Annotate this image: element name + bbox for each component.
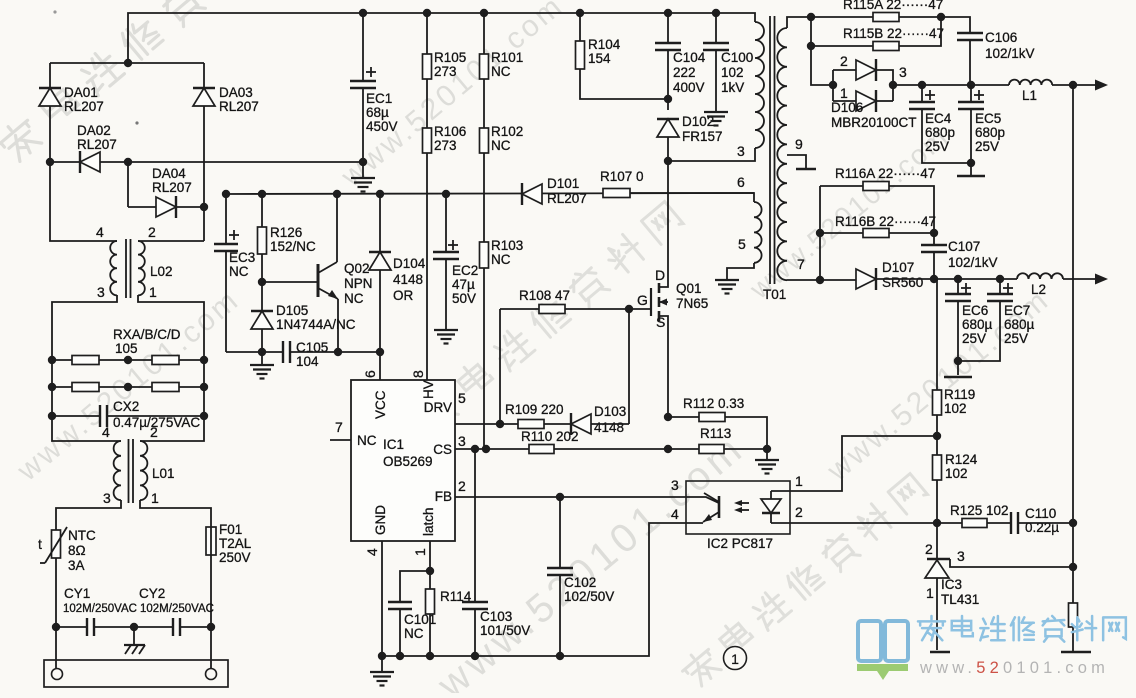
resistor R101 [483, 13, 485, 54]
svg-text:C102: C102 [564, 575, 596, 590]
node row2 M [124, 383, 132, 391]
wire C107 bottom lead [933, 252, 935, 277]
wire row1 right [179, 359, 204, 361]
svg-text:1: 1 [840, 85, 848, 101]
svg-text:EC1: EC1 [366, 91, 392, 106]
resistor R119 [934, 279, 937, 390]
wire +310V top rail [128, 13, 755, 63]
node rail EC1 [359, 9, 367, 17]
svg-text:8: 8 [410, 370, 426, 378]
svg-text:101/50V: 101/50V [480, 623, 530, 638]
node snubber1 right node [937, 13, 945, 21]
node rail R104 [576, 9, 584, 17]
svg-text:1N4744A/NC: 1N4744A/NC [276, 317, 356, 332]
svg-text:DRV: DRV [424, 400, 452, 415]
wire AC1 to EC1-minus [50, 161, 363, 163]
logo char 1 [952, 616, 973, 636]
logo char 2 [980, 616, 1004, 640]
resistor bottom right (unlabelled) [1069, 603, 1078, 627]
svg-text:R126: R126 [270, 225, 302, 240]
wire C102 bottom lead [559, 575, 561, 656]
svg-text:102M/250VAC: 102M/250VAC [63, 603, 137, 615]
opto pin2 wire [790, 522, 937, 524]
svg-text:7: 7 [797, 256, 805, 272]
svg-text:7N65: 7N65 [676, 296, 708, 311]
node CY mid node [130, 623, 138, 631]
resistor R105 [426, 13, 428, 54]
svg-text:EC5: EC5 [975, 111, 1001, 126]
svg-text:SR560: SR560 [882, 275, 923, 290]
svg-text:R108 47: R108 47 [519, 288, 570, 303]
svg-text:GND: GND [373, 505, 388, 535]
diode DA04 [156, 196, 176, 218]
svg-text:3: 3 [737, 143, 745, 159]
svg-text:R115B 22······47: R115B 22······47 [843, 26, 944, 41]
svg-text:NC: NC [491, 252, 511, 267]
wire R115B right lead [899, 17, 941, 46]
svg-text:G: G [637, 292, 648, 308]
logo char 5 [1072, 616, 1096, 640]
node bridge + node [124, 59, 132, 67]
svg-text:OB5269: OB5269 [383, 454, 433, 469]
svg-text:C100: C100 [721, 50, 753, 65]
svg-text:1: 1 [926, 585, 934, 601]
svg-text:4: 4 [102, 424, 110, 440]
node VCC pin node [376, 348, 384, 356]
capacitor C110 [1011, 512, 1018, 534]
node pin7 node [816, 276, 824, 284]
node EC1 minus / gnd [359, 158, 367, 166]
wire R112 right lead [725, 417, 767, 447]
wire R105-R106 link [426, 79, 428, 128]
ground below EC1 [351, 162, 375, 192]
svg-text:4: 4 [671, 506, 679, 522]
node DA02-DA04 link [124, 158, 132, 166]
svg-text:L2: L2 [1031, 282, 1046, 297]
node snubber node [664, 95, 672, 103]
wire L02 pin1 rail [138, 295, 204, 441]
resistor RXC [52, 386, 72, 388]
svg-text:S: S [656, 314, 665, 330]
node CX2 R [200, 412, 208, 420]
svg-text:104: 104 [296, 354, 319, 369]
wire EC6 bottom lead [957, 301, 959, 361]
wire L01 pin3 to NTC [56, 500, 121, 530]
wire CY mid wire [94, 626, 173, 628]
wire C110 right lead [1018, 522, 1073, 524]
ground at aux pin5 [715, 280, 739, 294]
svg-text:D: D [655, 267, 665, 283]
capacitor EC7 [999, 279, 1001, 294]
svg-text:t: t [38, 536, 42, 552]
resistor R110 [529, 445, 554, 454]
shunt regulator IC3 TL431 [936, 523, 938, 559]
wire Q01 source lead [659, 316, 668, 417]
svg-text:R115A 22······47: R115A 22······47 [843, 0, 943, 12]
wire row1 mid [99, 359, 152, 361]
wire VCC raw bus [226, 193, 754, 194]
capacitor EC6 [957, 279, 959, 294]
svg-text:OR: OR [393, 288, 414, 303]
MOSFET Q01 7N65 [650, 288, 652, 316]
svg-text:IC3: IC3 [941, 577, 962, 592]
svg-text:NTC: NTC [68, 528, 96, 543]
wire C101 bottom lead [399, 609, 401, 656]
svg-text:NC: NC [229, 264, 249, 279]
capacitor EC5 [970, 85, 972, 102]
svg-text:R116A 22······47: R116A 22······47 [835, 166, 935, 181]
wire R102-R103 link [483, 153, 485, 242]
node row1 M [124, 356, 132, 364]
pin 9 tap stub [787, 155, 806, 168]
capacitor C104 [667, 13, 669, 43]
capacitor C102 [559, 497, 561, 568]
node AC2 node [200, 203, 208, 211]
capacitor EC4 [921, 85, 923, 102]
wire L02 pin3 rail [52, 295, 121, 441]
svg-text:2: 2 [148, 224, 156, 240]
svg-text:50V: 50V [452, 291, 476, 306]
wire R101-R102 link [483, 79, 485, 128]
svg-text:1kV: 1kV [721, 80, 744, 95]
opto light arrows [737, 502, 749, 504]
inductor L01 winding A [114, 441, 121, 500]
wire R104 to D102 node [580, 69, 668, 99]
svg-text:NC: NC [344, 291, 364, 306]
node EC5 node [967, 81, 975, 89]
opto LED [770, 491, 772, 499]
svg-text:6: 6 [362, 370, 378, 378]
node C110 node [1069, 519, 1077, 527]
svg-text:R110 202: R110 202 [521, 429, 579, 444]
diode D104 [379, 194, 381, 252]
inductor L01 core [128, 439, 130, 503]
logo char 6 [1103, 617, 1126, 640]
resistor R115A [811, 16, 873, 18]
resistor R115B [811, 45, 873, 47]
logo green swoosh [857, 664, 908, 680]
svg-text:NC: NC [491, 138, 511, 153]
opto phototransistor [718, 496, 721, 518]
svg-text:5: 5 [738, 236, 746, 252]
resistor R108 [500, 308, 539, 310]
node D104 node [376, 190, 384, 198]
svg-text:102/50V: 102/50V [564, 589, 614, 604]
TL431 anode terminal bar [930, 651, 950, 654]
svg-text:C107: C107 [948, 239, 980, 254]
node rail R101 [480, 9, 488, 17]
node R119/R124 node [933, 432, 941, 440]
resistor RXD [152, 383, 179, 392]
svg-text:RXA/B/C/D: RXA/B/C/D [113, 327, 181, 342]
node C102 tap [556, 493, 564, 501]
svg-text:47µ: 47µ [452, 277, 475, 292]
node row1 L [48, 356, 56, 364]
wire D102 bottom lead [667, 137, 669, 161]
svg-text:680p: 680p [925, 125, 955, 140]
node D105 gnd node [258, 348, 266, 356]
wire pin5 to ground [727, 263, 754, 279]
capacitor EC3 [225, 194, 227, 244]
node C102 gnd [556, 652, 564, 660]
resistor R106 [423, 128, 432, 153]
node drain node [664, 157, 672, 165]
logo chinese title (stylized strokes) [918, 616, 945, 640]
wire VCC side rail [290, 351, 380, 353]
svg-text:Q02: Q02 [344, 261, 370, 276]
node gnd rail left [378, 652, 386, 660]
node ref node [1069, 563, 1077, 571]
svg-text:3: 3 [899, 64, 907, 80]
svg-text:273: 273 [434, 138, 457, 153]
svg-text:25V: 25V [925, 139, 949, 154]
fuse F01 [206, 527, 216, 555]
opto pin1 wire to divider [790, 436, 937, 491]
wire C100 bottom lead [715, 50, 717, 111]
svg-text:FB: FB [435, 489, 452, 504]
wire D106 top out [877, 70, 893, 101]
wire AC1 to L02 pin4 [50, 162, 117, 241]
svg-text:2: 2 [150, 424, 158, 440]
node EC4 node [918, 81, 926, 89]
wire EC1 bottom lead [362, 88, 364, 162]
node Q02 base node [258, 278, 266, 286]
wire CY2 right lead [180, 626, 211, 628]
svg-text:102/1kV: 102/1kV [948, 255, 998, 270]
node EC6/EC7 gnd node [954, 357, 962, 365]
wire signal gnd rail [382, 523, 686, 656]
resistor RXB [152, 356, 179, 365]
svg-text:FR157: FR157 [682, 129, 723, 144]
svg-text:680µ: 680µ [962, 317, 993, 332]
svg-text:NC: NC [404, 626, 424, 641]
resistor R102 [480, 128, 489, 153]
resistor R116B [820, 232, 863, 234]
wire R108 left riser [499, 309, 501, 424]
ground below EC5 [957, 163, 985, 176]
svg-text:R107 0: R107 0 [600, 169, 644, 184]
node V1 feedback tap [1069, 81, 1077, 89]
wire V2 rail left [877, 278, 1017, 280]
output arrow V1 [1095, 80, 1108, 91]
svg-text:6: 6 [737, 174, 745, 190]
logo char 4 [1043, 616, 1065, 642]
wire Q02 collector lead [336, 194, 338, 262]
svg-text:CX2: CX2 [113, 399, 139, 414]
node row2 R [200, 383, 208, 391]
node R115B tap [807, 42, 815, 50]
svg-text:3: 3 [103, 490, 111, 506]
node C103 tap [471, 445, 479, 453]
capacitor C101 [400, 571, 430, 602]
svg-text:RL207: RL207 [547, 191, 587, 206]
svg-text:R106: R106 [434, 124, 466, 139]
wire TL431 ref wire [950, 559, 1073, 567]
svg-text:C110: C110 [1025, 506, 1056, 521]
watermark diagonal text top-left [0, 0, 287, 167]
wire R110 right lead [554, 448, 668, 450]
svg-text:C104: C104 [673, 50, 706, 65]
dual diode D106 MBR20100CT [832, 70, 834, 101]
wire EC4 bottom lead [922, 109, 971, 163]
svg-text:R113: R113 [700, 426, 731, 441]
transformer T01 primary winding pins top-3 [755, 22, 764, 148]
node EC4/EC5 gnd node [967, 159, 975, 167]
node snubber1 left node [807, 13, 815, 21]
wire bridge left leg [49, 63, 51, 162]
svg-text:RL207: RL207 [64, 99, 104, 114]
wire DA04 row [128, 206, 204, 208]
wire R125 right lead [987, 522, 1011, 524]
wire EC7 bottom lead [958, 301, 1000, 361]
svg-text:latch: latch [421, 507, 436, 536]
svg-text:222: 222 [673, 65, 696, 80]
resistor R126 [261, 194, 263, 227]
svg-text:D103: D103 [594, 404, 626, 419]
node EC2 node [442, 190, 450, 198]
svg-text:152/NC: 152/NC [270, 239, 316, 254]
resistor R107 [603, 189, 630, 198]
resistor R103 [480, 242, 489, 268]
capacitor EC2 [445, 194, 447, 252]
wire R124 bottom lead [936, 480, 938, 523]
svg-text:T01: T01 [763, 287, 786, 302]
wire mid leg [127, 162, 129, 207]
svg-text:25V: 25V [962, 331, 986, 346]
wire bridge right leg [203, 63, 205, 241]
node C107/R119 node [930, 275, 938, 283]
svg-text:R124: R124 [945, 452, 978, 467]
mains connector block [44, 660, 228, 687]
capacitor CY1 [56, 626, 87, 628]
node row1 R [200, 356, 208, 364]
svg-text:250V: 250V [219, 550, 251, 565]
transformer T01 secondary winding pins 9-tap 7 [787, 17, 811, 28]
node R103 tap [482, 445, 490, 453]
wire D105 bottom lead [261, 329, 263, 352]
svg-text:NC: NC [357, 433, 377, 448]
svg-text:4: 4 [96, 224, 104, 240]
inductor L02 winding B [138, 241, 145, 295]
svg-text:CS: CS [433, 442, 452, 457]
logo char 3 [1011, 617, 1034, 640]
wire VCC pin lead [379, 352, 381, 380]
svg-text:4148: 4148 [594, 420, 624, 435]
wire AC2 to L02 pin2 [138, 240, 204, 242]
diode D103 [571, 413, 591, 435]
node DRV node [496, 420, 504, 428]
optocoupler IC2 PC817 body [686, 481, 790, 534]
svg-text:154: 154 [588, 51, 611, 66]
svg-text:R102: R102 [491, 124, 523, 139]
terminal bar bottom right [1061, 651, 1091, 654]
svg-text:www.520101.com: www.520101.com [919, 659, 1109, 677]
VCC local rail with C105 [226, 351, 283, 353]
wire V1 rail left [893, 84, 1009, 86]
svg-text:MBR20100CT: MBR20100CT [831, 115, 917, 130]
inductor L01 winding B [140, 441, 147, 500]
diode D101 [522, 183, 542, 205]
node rail C104 [664, 9, 672, 17]
wire C103 bottom lead [474, 609, 476, 656]
wire row2 mid [99, 386, 152, 388]
node R126 node [258, 190, 266, 198]
wire R109 right lead [544, 423, 571, 425]
svg-text:1: 1 [151, 490, 159, 506]
wire EC5 bottom lead [970, 109, 972, 163]
svg-text:EC2: EC2 [452, 263, 478, 278]
svg-text:3A: 3A [68, 558, 85, 573]
node snubber2 right node [930, 229, 938, 237]
svg-text:102: 102 [945, 466, 968, 481]
svg-text:68µ: 68µ [366, 105, 389, 120]
svg-text:400V: 400V [673, 80, 705, 95]
svg-text:NPN: NPN [344, 276, 373, 291]
inductor L02 core [125, 239, 127, 298]
svg-text:102/1kV: 102/1kV [985, 46, 1035, 61]
svg-text:TL431: TL431 [941, 592, 979, 607]
resistor R113 [668, 448, 699, 450]
wire R103 to CS [483, 268, 485, 449]
wire NTC bottom lead [55, 558, 57, 627]
capacitor C106 [941, 17, 970, 33]
node D106 anode node [829, 81, 837, 89]
wire R119 bottom lead [936, 415, 938, 436]
svg-text:L02: L02 [150, 264, 173, 279]
watermark diagonal text center [413, 200, 686, 436]
capacitor C103 [474, 449, 476, 602]
wire R114 bottom lead [429, 614, 431, 656]
svg-text:D106: D106 [831, 100, 863, 115]
wire D106 bot in [833, 100, 856, 102]
svg-text:3: 3 [97, 284, 105, 300]
wire D106 bot out [877, 100, 893, 102]
svg-text:R104: R104 [588, 37, 621, 52]
capacitor C105 [283, 341, 290, 363]
svg-text:D104: D104 [393, 256, 426, 271]
svg-text:102M/250VAC: 102M/250VAC [140, 603, 214, 615]
wire D104 bottom lead [379, 270, 381, 352]
node latch node [426, 567, 434, 575]
svg-text:EC3: EC3 [229, 250, 255, 265]
svg-text:8Ω: 8Ω [68, 543, 86, 558]
svg-text:VCC: VCC [373, 390, 388, 419]
svg-text:R109 220: R109 220 [505, 402, 564, 417]
wire pin4 internal [686, 522, 703, 524]
node R114 gnd [426, 652, 434, 660]
svg-text:IC2 PC817: IC2 PC817 [707, 536, 773, 551]
transformer T01 core [769, 16, 771, 284]
svg-text:25V: 25V [975, 139, 999, 154]
node C101 gnd [396, 652, 404, 660]
capacitor CY2 [173, 618, 180, 636]
svg-text:680p: 680p [975, 125, 1005, 140]
svg-text:L01: L01 [152, 466, 175, 481]
page marker circled 1 [724, 647, 747, 670]
svg-text:RL207: RL207 [152, 180, 192, 195]
wire pin2 internal [771, 522, 790, 524]
svg-text:F01: F01 [219, 522, 242, 537]
wire pin1 internal [771, 490, 790, 492]
resistor R109 [500, 423, 518, 425]
svg-text:NC: NC [491, 64, 511, 79]
capacitor EC1 [362, 13, 364, 81]
node C103 gnd [471, 652, 479, 660]
svg-text:3: 3 [458, 433, 466, 449]
svg-text:D101: D101 [547, 176, 579, 191]
node CY1 L node [52, 623, 60, 631]
transformer T01 aux winding pins 6-5 [630, 193, 754, 202]
